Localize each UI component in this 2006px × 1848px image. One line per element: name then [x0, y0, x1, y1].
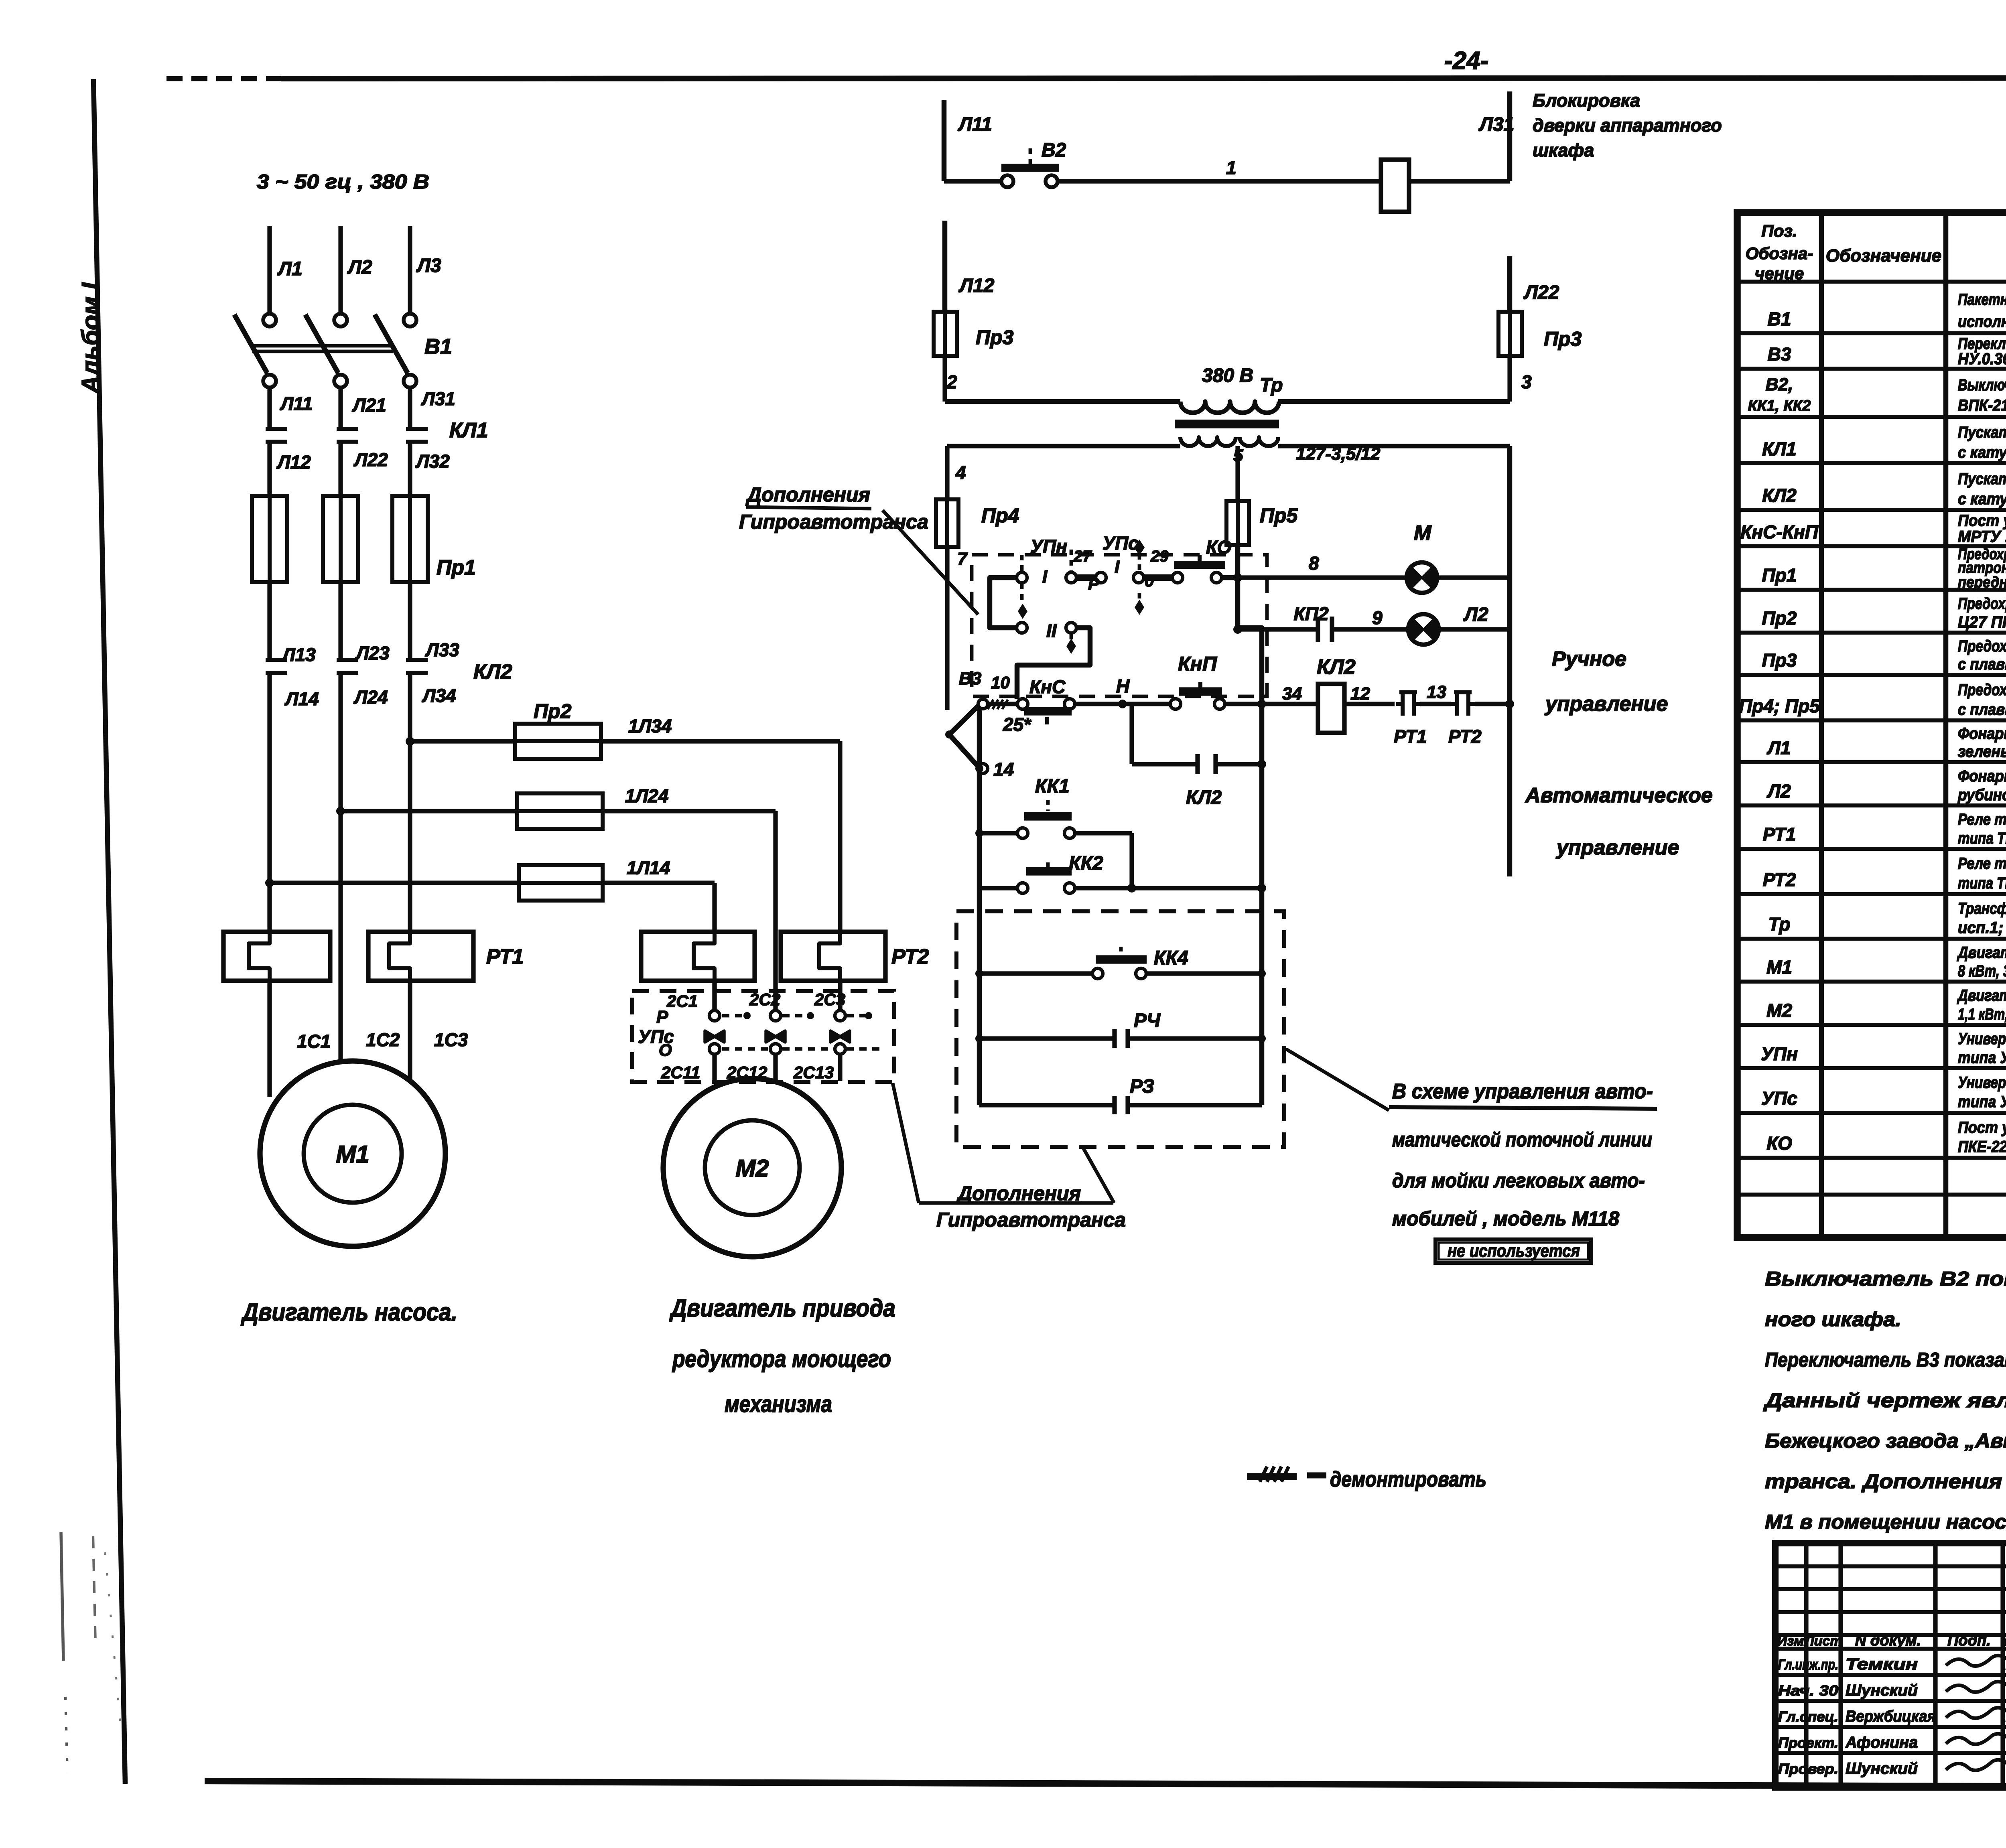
svg-text:Гипроавтотранса: Гипроавтотранса: [936, 1209, 1126, 1231]
svg-text:Л31: Л31: [421, 388, 455, 409]
svg-text:РЧ: РЧ: [1134, 1010, 1161, 1031]
svg-text:В схеме управления авто-: В схеме управления авто-: [1392, 1080, 1653, 1103]
svg-text:Универсальный переключатель: Универсальный переключатель: [1958, 1030, 2006, 1048]
svg-text:2С12: 2С12: [727, 1063, 767, 1082]
svg-text:Дополнения: Дополнения: [956, 1182, 1081, 1205]
svg-text:переднего присоединения ГОСТ: переднего присоединения ГОСТ 3041-65: [1958, 574, 2006, 591]
svg-text:Пост управления ПКЕ-612-2: Пост управления ПКЕ-612-2: [1958, 512, 2006, 529]
svg-text:2: 2: [946, 371, 957, 392]
svg-text:380 В: 380 В: [1202, 365, 1253, 386]
svg-text:КнП: КнП: [1178, 653, 1217, 675]
svg-text:механизма: механизма: [725, 1391, 832, 1417]
svg-text:Пр2: Пр2: [1762, 608, 1797, 629]
svg-text:Ц27 ППБ-2 ГОСТ 1138-63: Ц27 ППБ-2 ГОСТ 1138-63: [1958, 613, 2006, 631]
svg-text:типа УП5404-С71: типа УП5404-С71: [1958, 1093, 2006, 1111]
svg-text:КК1: КК1: [1035, 776, 1070, 797]
svg-text:М1: М1: [1766, 957, 1792, 978]
svg-text:Пакетный выключатель V вель-чи: Пакетный выключатель V вель-чина: [1958, 291, 2006, 308]
svg-text:Р: Р: [656, 1007, 668, 1027]
svg-text:34: 34: [1282, 684, 1302, 704]
svg-text:Поз.: Поз.: [1762, 221, 1797, 240]
svg-text:Реле тепловое токовое двухпол: Реле тепловое токовое двухполюсное: [1958, 855, 2006, 872]
svg-text:М: М: [1414, 521, 1432, 545]
svg-text:7: 7: [957, 549, 968, 569]
svg-text:1Л34: 1Л34: [628, 716, 672, 736]
svg-text:13: 13: [1427, 682, 1446, 702]
svg-text:матической поточной линии: матической поточной линии: [1392, 1128, 1652, 1151]
svg-text:Пр5: Пр5: [1260, 504, 1298, 527]
svg-text:Пост управления типа: Пост управления типа: [1958, 1119, 2006, 1136]
svg-text:I: I: [1042, 567, 1048, 586]
svg-text:2С2: 2С2: [749, 990, 780, 1009]
svg-text:Выключатель В2 показан в п: Выключатель В2 показан в положении откры…: [1765, 1268, 2006, 1290]
svg-text:2С13: 2С13: [793, 1063, 834, 1082]
svg-text:М1 в помещении насосной о: М1 в помещении насосной оборотного водос…: [1765, 1511, 2006, 1533]
svg-text:8 кВт, 3000 об/мин (синхр) 220: 8 кВт, 3000 об/мин (синхр) 220/380В ГОСТ…: [1958, 962, 2006, 980]
svg-text:транса. Дополнения вызваны: транса. Дополнения вызваны необходимость…: [1765, 1470, 2006, 1493]
svg-text:Пр1: Пр1: [1762, 565, 1797, 586]
svg-text:УПн: УПн: [1030, 536, 1067, 557]
svg-text:О: О: [659, 1041, 672, 1059]
svg-text:Нач. 30: Нач. 30: [1778, 1682, 1838, 1699]
svg-text:3 ~ 50 гц , 380 В: 3 ~ 50 гц , 380 В: [257, 170, 429, 193]
svg-text:Гл.инж.пр.: Гл.инж.пр.: [1778, 1656, 1838, 1673]
svg-text:Л3: Л3: [416, 255, 441, 276]
svg-text:Л32: Л32: [415, 451, 450, 472]
svg-text:N докум.: N докум.: [1855, 1632, 1921, 1649]
svg-text:КК1, КК2: КК1, КК2: [1748, 398, 1811, 414]
svg-text:РТ2: РТ2: [1763, 869, 1796, 890]
svg-text:Пр4: Пр4: [981, 504, 1019, 527]
svg-text:Л14: Л14: [284, 688, 319, 709]
svg-text:Пр3: Пр3: [976, 326, 1014, 349]
svg-text:КнС-КнП: КнС-КнП: [1740, 521, 1819, 542]
svg-text:КЛ2: КЛ2: [1762, 485, 1797, 506]
svg-text:типа ТРН-10 с нагревательным э: типа ТРН-10 с нагревательным элементом 3…: [1958, 874, 2006, 892]
svg-text:РТ1: РТ1: [1763, 824, 1796, 845]
svg-text:РТ2: РТ2: [891, 945, 929, 968]
svg-text:КП2: КП2: [1294, 603, 1329, 624]
svg-text:Афонина: Афонина: [1845, 1734, 1918, 1751]
svg-text:Вержбицкая: Вержбицкая: [1846, 1708, 1936, 1725]
svg-text:РЗ: РЗ: [1130, 1076, 1154, 1097]
svg-text:В1: В1: [424, 335, 452, 359]
svg-text:1С3: 1С3: [434, 1029, 468, 1050]
svg-text:рубиновым цветом линзы ТУ 2: рубиновым цветом линзы ТУ 2285-51: [1957, 786, 2006, 804]
svg-text:Р: Р: [1088, 574, 1100, 593]
svg-text:3: 3: [1521, 371, 1532, 392]
svg-text:КО: КО: [1206, 537, 1232, 558]
svg-text:редуктора моющего: редуктора моющего: [672, 1345, 891, 1372]
svg-text:Л33: Л33: [425, 639, 459, 660]
svg-text:чение: чение: [1755, 264, 1804, 283]
svg-text:УПс: УПс: [1102, 533, 1139, 554]
svg-text:с катушкой на 110В МРТУ 16.53: с катушкой на 110В МРТУ 16.535.087-69: [1958, 490, 2006, 508]
svg-text:Л24: Л24: [353, 687, 388, 708]
svg-text:М1: М1: [336, 1141, 369, 1168]
svg-text:исп.1; 380/5-22-110/12 В МРТУ: исп.1; 380/5-22-110/12 В МРТУ 16-517.259…: [1958, 919, 2006, 937]
svg-text:КЛ2: КЛ2: [1186, 787, 1222, 808]
svg-text:Л22: Л22: [1523, 282, 1559, 303]
svg-text:Фонарь сигнальной лампы ПД-20: Фонарь сигнальной лампы ПД-20Д с: [1958, 725, 2006, 742]
svg-text:шкафа: шкафа: [1533, 140, 1594, 160]
svg-text:Предохранитель резьбовой тип П: Предохранитель резьбовой тип ПРС-6-П: [1958, 637, 2006, 655]
svg-text:В1: В1: [1768, 308, 1791, 329]
svg-text:127-3,5/12: 127-3,5/12: [1296, 444, 1381, 464]
svg-text:УПн: УПн: [1761, 1043, 1798, 1064]
svg-text:2С1: 2С1: [666, 992, 698, 1010]
svg-text:КЛ1: КЛ1: [449, 419, 488, 442]
svg-text:исполнение 1ПВМ3-60 ГОСТ 8523: исполнение 1ПВМ3-60 ГОСТ 8523-51: [1958, 313, 2006, 331]
svg-text:Предохранитель резьбовой типа: Предохранитель резьбовой типа ПРС-6-П: [1958, 681, 2006, 699]
svg-text:Универсальный переключатель: Универсальный переключатель: [1958, 1074, 2006, 1091]
svg-text:с плавкой вставкой 2А МРТУ 16-: с плавкой вставкой 2А МРТУ 16-522.041-67: [1958, 701, 2006, 718]
svg-text:Пр3: Пр3: [1762, 650, 1797, 671]
svg-text:Дополнения: Дополнения: [745, 483, 870, 506]
svg-text:29: 29: [1150, 548, 1169, 565]
svg-text:Переключатель В3 показан в: Переключатель В3 показан в положении „ р…: [1765, 1349, 2006, 1371]
svg-text:Шунский: Шунский: [1846, 1682, 1918, 1699]
svg-text:Бежецкого завода „Автоспецоб: Бежецкого завода „Автоспецоборудование” …: [1765, 1430, 2006, 1452]
svg-text:-24-: -24-: [1444, 47, 1488, 75]
svg-text:Провер.: Провер.: [1778, 1761, 1838, 1777]
svg-text:РТ1: РТ1: [486, 945, 524, 968]
svg-text:II: II: [1046, 620, 1057, 641]
svg-text:В3: В3: [959, 669, 981, 688]
svg-text:РТ2: РТ2: [1448, 726, 1482, 747]
svg-text:дверки аппаратного: дверки аппаратного: [1533, 115, 1722, 136]
svg-text:Л2: Л2: [1766, 781, 1791, 801]
svg-text:1: 1: [1226, 157, 1236, 178]
svg-text:9: 9: [1372, 607, 1383, 628]
svg-text:В3: В3: [1768, 344, 1791, 365]
svg-text:мобилей , модель М118: мобилей , модель М118: [1392, 1207, 1619, 1230]
svg-text:Пускатель магнитный ПАЕ-312: Пускатель магнитный ПАЕ-312: [1958, 470, 2006, 488]
svg-text:КЛ2: КЛ2: [1317, 655, 1356, 679]
svg-text:КК2: КК2: [1069, 853, 1103, 874]
svg-text:Двигатель переменного тока АО: Двигатель переменного тока АО2-52-2: [1957, 944, 2006, 962]
svg-text:Пр4; Пр5: Пр4; Пр5: [1739, 696, 1820, 716]
svg-text:Фонарь сигнальной лампы ПД-20: Фонарь сигнальной лампы ПД-20Е с: [1958, 767, 2006, 785]
svg-text:РТ1: РТ1: [1394, 726, 1427, 747]
svg-text:для мойки легковых авто-: для мойки легковых авто-: [1392, 1169, 1645, 1192]
svg-text:КЛ1: КЛ1: [1762, 438, 1796, 459]
svg-text:1Л24: 1Л24: [625, 785, 668, 806]
svg-text:Данный чертеж является ко: Данный чертеж является копией с чертежа …: [1763, 1389, 2006, 1412]
svg-text:демонтировать: демонтировать: [1330, 1467, 1486, 1491]
svg-text:КЛ2: КЛ2: [473, 660, 512, 684]
svg-text:управление: управление: [1555, 836, 1679, 859]
svg-text:В2: В2: [1042, 140, 1066, 161]
svg-text:управление: управление: [1544, 692, 1668, 716]
svg-text:Л1: Л1: [277, 258, 303, 280]
svg-text:Двигатель привода: Двигатель привода: [669, 1294, 895, 1322]
svg-text:14: 14: [993, 759, 1014, 780]
svg-text:Л31: Л31: [1478, 114, 1514, 135]
svg-text:М2: М2: [1766, 1000, 1792, 1021]
svg-text:Л21: Л21: [352, 395, 386, 416]
svg-text:с катушкой на 380В: с катушкой на 380В: [1958, 444, 2006, 461]
svg-text:10: 10: [991, 673, 1010, 692]
svg-text:МРТУ 16-526.143-69: МРТУ 16-526.143-69: [1958, 528, 2006, 546]
svg-text:Шунский: Шунский: [1846, 1760, 1918, 1777]
svg-text:типа ТРН-40 с нагревательным э: типа ТРН-40 с нагревательным элементом 3…: [1958, 830, 2006, 847]
svg-text:Тр: Тр: [1768, 914, 1790, 935]
svg-text:ВПК-2112 исполнение 5 МРТУ 16-: ВПК-2112 исполнение 5 МРТУ 16-526.005-65: [1958, 397, 2006, 414]
svg-text:КО: КО: [1766, 1133, 1792, 1154]
svg-text:не используется: не используется: [1448, 1241, 1580, 1261]
svg-text:1С2: 1С2: [366, 1029, 400, 1050]
svg-text:зеленым цветом линзы ТУ 228: зеленым цветом линзы ТУ 2285-51: [1958, 743, 2006, 761]
svg-text:Выключатель путевой (конечный): Выключатель путевой (конечный): [1958, 376, 2006, 394]
svg-text:Изм: Изм: [1777, 1633, 1804, 1649]
svg-text:Л1: Л1: [1766, 737, 1791, 758]
svg-text:Автоматическое: Автоматическое: [1525, 784, 1713, 807]
svg-text:8: 8: [1309, 553, 1319, 574]
svg-text:27: 27: [1073, 548, 1092, 565]
svg-text:Л22: Л22: [353, 449, 388, 470]
svg-text:ПКЕ-222-1: ПКЕ-222-1: [1958, 1138, 2006, 1156]
svg-text:Пр1: Пр1: [437, 556, 476, 579]
svg-text:1Л14: 1Л14: [627, 857, 670, 878]
svg-text:Проект.: Проект.: [1778, 1734, 1838, 1751]
svg-text:12: 12: [1350, 684, 1370, 704]
svg-text:Реле тепловое токовое двухпол: Реле тепловое токовое двухполюсное: [1958, 811, 2006, 828]
svg-text:I: I: [1115, 557, 1120, 577]
svg-text:Лист: Лист: [1803, 1633, 1842, 1649]
svg-text:Обозна-: Обозна-: [1746, 244, 1813, 263]
svg-text:КК4: КК4: [1154, 947, 1188, 969]
svg-text:2С11: 2С11: [661, 1063, 700, 1082]
svg-text:УПс: УПс: [1761, 1088, 1797, 1109]
svg-text:НУ.0.360.606ТУ: НУ.0.360.606ТУ: [1958, 350, 2006, 368]
svg-text:с плавкой вставкой 6А МРТУ 16-: с плавкой вставкой 6А МРТУ 16-522.041-67: [1958, 655, 2006, 673]
svg-text:Тр: Тр: [1260, 375, 1283, 396]
svg-text:Обозначение: Обозначение: [1826, 246, 1941, 266]
svg-text:Л23: Л23: [355, 643, 390, 663]
svg-text:Предохранитель резьбовой одноп: Предохранитель резьбовой однополюсный: [1958, 595, 2006, 613]
svg-text:Подп.: Подп.: [1947, 1632, 1991, 1649]
svg-text:В2,: В2,: [1766, 375, 1793, 394]
svg-text:Л12: Л12: [276, 452, 311, 473]
svg-text:Ручное: Ручное: [1552, 647, 1626, 671]
svg-text:Л11: Л11: [280, 393, 313, 414]
svg-text:0: 0: [1145, 571, 1154, 590]
svg-text:Двигатель насоса.: Двигатель насоса.: [241, 1298, 457, 1326]
svg-text:Двигатель переменного тока АО(: Двигатель переменного тока АО(АОЛ)2-22-6: [1957, 987, 2006, 1004]
svg-text:Л2: Л2: [1463, 604, 1488, 625]
svg-text:Н: Н: [1116, 676, 1130, 696]
svg-text:2С3: 2С3: [814, 990, 845, 1009]
svg-text:Пр2: Пр2: [534, 700, 572, 722]
svg-text:Трансформатор однофазный ТБС3: Трансформатор однофазный ТБС3-0,15: [1958, 900, 2006, 917]
svg-text:Л34: Л34: [422, 685, 456, 706]
svg-text:4: 4: [955, 462, 966, 483]
svg-text:М2: М2: [735, 1155, 769, 1182]
svg-text:Л11: Л11: [958, 114, 992, 135]
svg-text:25*: 25*: [1003, 714, 1031, 735]
svg-text:Л2: Л2: [347, 257, 372, 278]
svg-text:Л13: Л13: [281, 644, 316, 665]
svg-text:Пускатель магнитный ПАЕ-311: Пускатель магнитный ПАЕ-311: [1958, 424, 2006, 441]
svg-text:Блокировка: Блокировка: [1533, 90, 1640, 111]
svg-text:1С1: 1С1: [297, 1031, 331, 1052]
svg-text:Пр3: Пр3: [1544, 328, 1582, 350]
svg-text:1,1 кВт, 3000 об/мин (синхр.): 1,1 кВт, 3000 об/мин (синхр.) 220/380В Г…: [1958, 1006, 2006, 1023]
svg-text:типа УП5402-С23: типа УП5402-С23: [1958, 1049, 2006, 1067]
svg-text:Темкин: Темкин: [1846, 1655, 1918, 1673]
svg-text:Л12: Л12: [958, 275, 995, 296]
svg-text:КнС: КнС: [1029, 676, 1066, 697]
svg-text:Альбом I: Альбом I: [77, 282, 105, 395]
svg-text:ного шкафа.: ного шкафа.: [1765, 1308, 1901, 1331]
svg-text:Гл.спец.: Гл.спец.: [1778, 1708, 1838, 1725]
